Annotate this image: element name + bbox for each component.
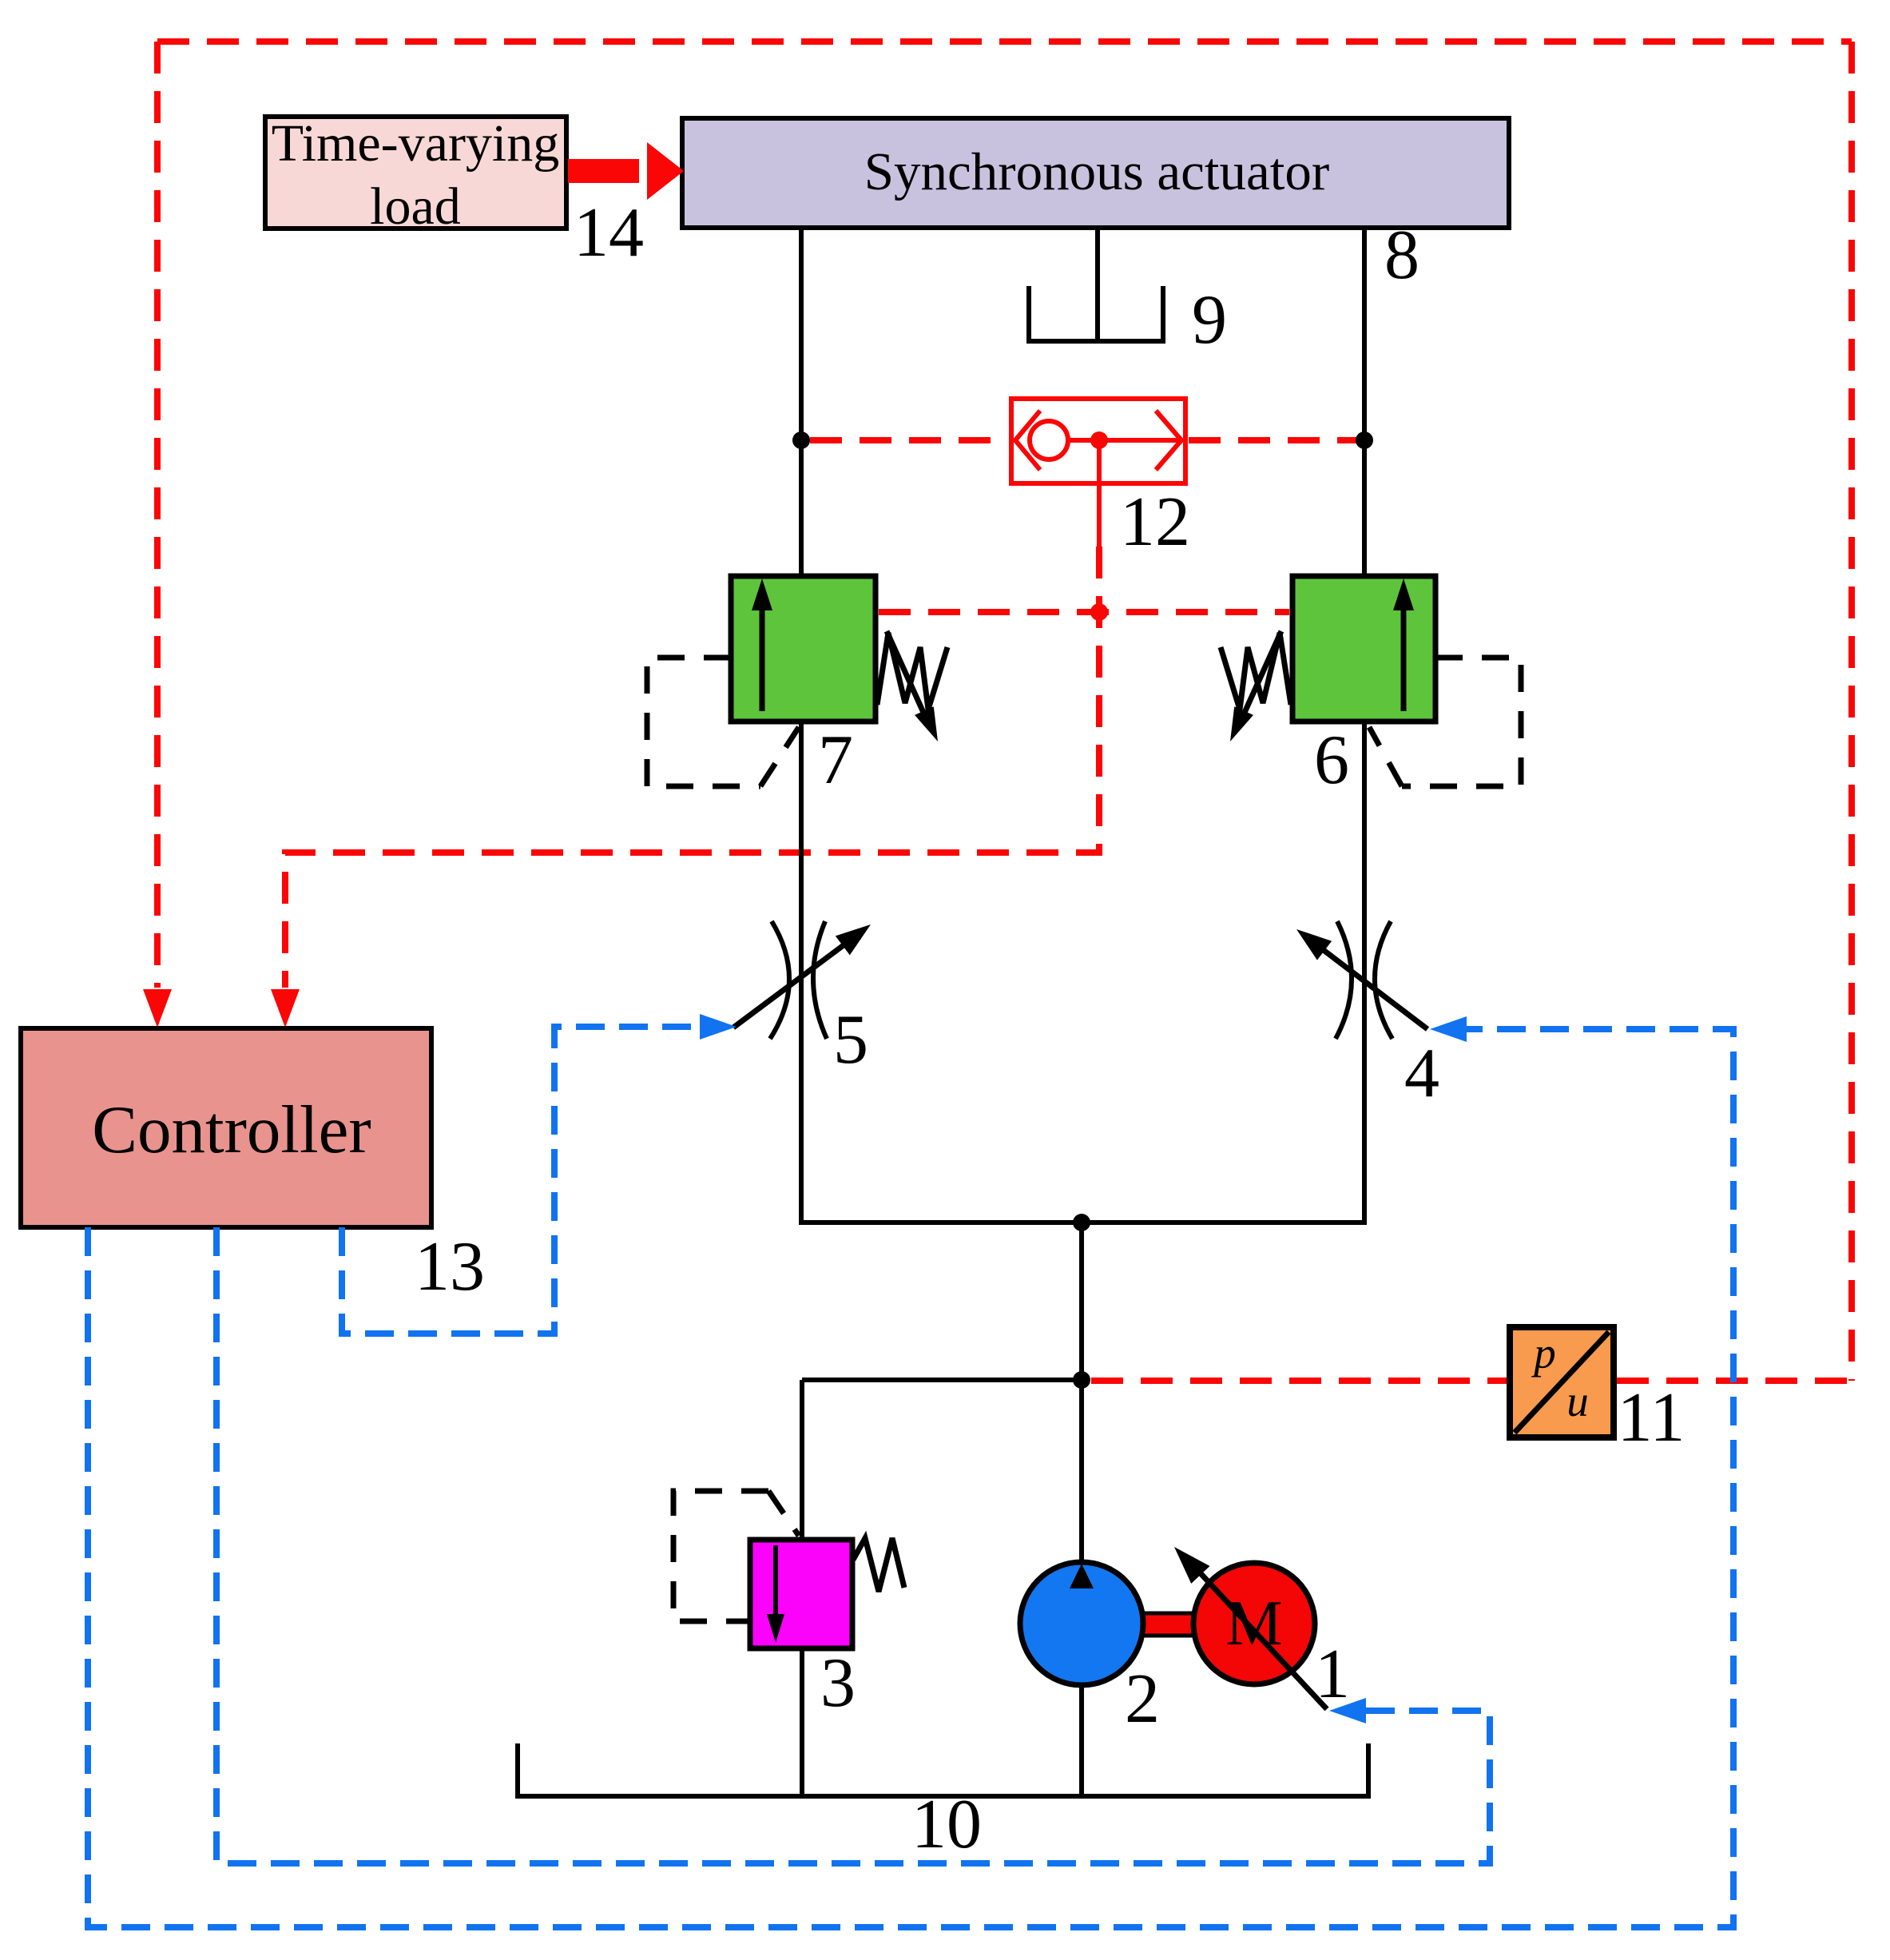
svg-text:Synchronous actuator: Synchronous actuator <box>864 142 1329 201</box>
svg-text:8: 8 <box>1384 217 1419 294</box>
svg-text:1: 1 <box>1315 1636 1350 1713</box>
svg-text:13: 13 <box>415 1228 485 1306</box>
svg-text:12: 12 <box>1120 483 1190 561</box>
svg-text:5: 5 <box>833 1001 868 1079</box>
svg-text:M: M <box>1225 1588 1282 1659</box>
svg-text:2: 2 <box>1125 1660 1160 1738</box>
svg-text:7: 7 <box>818 722 853 799</box>
svg-text:u: u <box>1566 1377 1589 1425</box>
svg-text:10: 10 <box>911 1786 982 1863</box>
svg-text:4: 4 <box>1404 1035 1439 1112</box>
svg-text:Time-varying: Time-varying <box>272 114 560 173</box>
svg-text:11: 11 <box>1618 1379 1686 1457</box>
svg-text:load: load <box>370 177 461 236</box>
svg-text:p: p <box>1531 1329 1556 1378</box>
svg-text:6: 6 <box>1314 722 1349 799</box>
svg-text:3: 3 <box>820 1644 856 1722</box>
svg-text:9: 9 <box>1192 281 1227 359</box>
svg-text:Controller: Controller <box>92 1092 371 1167</box>
svg-text:14: 14 <box>574 194 644 272</box>
